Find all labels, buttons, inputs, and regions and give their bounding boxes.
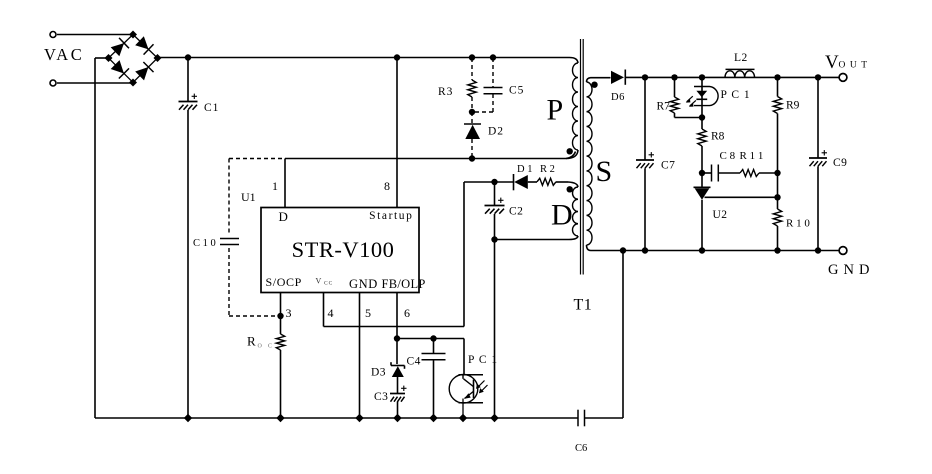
node sec-C7 (642, 74, 648, 80)
label R9 (786, 100, 800, 112)
svg-text:O: O (258, 344, 263, 350)
wire primary ground rail (95, 417, 623, 419)
svg-text:R 2: R 2 (540, 164, 555, 175)
label D (279, 209, 288, 224)
node R3-C5-D2 (469, 109, 475, 115)
wire C3 to gnd (397, 402, 399, 419)
svg-text:3: 3 (286, 306, 292, 320)
wire bridge-left to ground rail (95, 58, 109, 418)
diode D2 (464, 124, 481, 139)
svg-text:P C 1: P C 1 (721, 89, 751, 101)
wire pin1 drain (284, 159, 286, 208)
svg-text:8: 8 (384, 179, 390, 193)
svg-text:R 1 0: R 1 0 (786, 218, 810, 230)
label D6 (611, 92, 625, 103)
label C3 (374, 391, 388, 403)
wire sec to D6 (591, 77, 611, 79)
node sec-R9 (774, 74, 780, 80)
node opto-gnd (459, 414, 467, 422)
label STR-V100 (292, 237, 395, 262)
svg-text:D2: D2 (488, 126, 504, 138)
svg-text:D3: D3 (371, 367, 386, 379)
node bus-C5 (490, 54, 496, 60)
wire C2 to gnd (494, 240, 496, 419)
capacitor C4 (422, 339, 446, 419)
svg-text:C2: C2 (509, 206, 523, 218)
wire secondary-return vertical (622, 251, 624, 419)
wire pin3 (280, 293, 282, 335)
wire VAC-top to bridge (57, 34, 133, 36)
label Startup (369, 210, 413, 222)
label D2 (488, 126, 504, 138)
capacitor C8 (712, 165, 719, 182)
label pin5 (365, 306, 371, 320)
node ROCP-gnd (276, 414, 284, 422)
label C5 (509, 85, 524, 97)
node sec-C9 (815, 74, 821, 80)
wire C8 to R11 (718, 172, 740, 174)
resistor R3 (468, 80, 476, 97)
node pin3-dashed (277, 313, 283, 319)
wire dashed U1 top (229, 158, 283, 160)
label D1 (517, 164, 532, 175)
resistor ROCP (276, 334, 284, 350)
svg-text:S: S (596, 155, 613, 188)
node D-phase (567, 186, 573, 192)
svg-text:C6: C6 (575, 443, 587, 454)
diode D1 (514, 174, 528, 190)
svg-text:D: D (279, 209, 288, 224)
label U1 (241, 190, 256, 204)
svg-text:Startup: Startup (369, 210, 413, 222)
label ROCP (247, 334, 272, 350)
svg-text:5: 5 (365, 306, 371, 320)
label R3 (438, 86, 453, 98)
wire VAC-bottom to bridge (57, 82, 133, 84)
svg-text:GND: GND (349, 277, 378, 291)
label U2 (713, 209, 728, 221)
label S (596, 155, 613, 188)
wire dashed D2 bottom (471, 139, 473, 159)
svg-text:U2: U2 (713, 209, 728, 221)
wire R11 to divider (759, 172, 778, 174)
wire dashed U1 left (228, 159, 230, 317)
svg-text:D6: D6 (611, 92, 625, 103)
wire pin4 vcc (324, 182, 465, 327)
node R8-C8-U2 (699, 170, 705, 176)
wire vcc to D1 (464, 181, 514, 183)
node divider-ref (774, 194, 780, 200)
svg-text:C7: C7 (661, 160, 675, 172)
opto-transistor PC1 (449, 375, 487, 419)
node bus-R3 (469, 54, 475, 60)
node vcc-D1-C2 (491, 179, 497, 185)
label D-winding (551, 199, 573, 232)
label VAC (44, 45, 84, 64)
node sec-LED (699, 74, 705, 80)
op-amp U1 body (261, 208, 419, 293)
terminal VOUT (839, 74, 847, 82)
label C10 (193, 238, 216, 249)
label VOUT (825, 52, 872, 73)
svg-text:D: D (551, 199, 573, 232)
shunt-regulator U2 (694, 173, 711, 251)
wire dashed C5 top (492, 58, 494, 87)
node C4-gnd (429, 414, 437, 422)
label C4 (407, 356, 421, 368)
capacitor C5 (484, 88, 503, 94)
label C2 (509, 206, 523, 218)
node bus-C1 (185, 54, 191, 60)
node secgnd-R10 (774, 247, 780, 253)
opto-LED PC1 (686, 77, 718, 117)
capacitor C6 (578, 410, 585, 427)
node pin5-gnd (355, 414, 363, 422)
svg-text:V: V (316, 277, 322, 286)
node C1-gnd (184, 414, 192, 422)
svg-text:C 8: C 8 (720, 150, 736, 162)
wire pin6 (396, 293, 398, 365)
wire sec gnd rail (591, 250, 840, 252)
svg-text:C3: C3 (374, 391, 388, 403)
label GND-out (828, 262, 874, 278)
node bus-pin8 (394, 54, 400, 60)
wire aux return (495, 236, 579, 240)
label pin1 (272, 179, 278, 193)
svg-text:4: 4 (328, 306, 334, 320)
wire fb to opto (397, 339, 464, 375)
terminal VAC-top (50, 32, 56, 38)
label R10 (786, 218, 810, 230)
svg-text:P: P (547, 94, 564, 127)
label FB/OLP (382, 277, 426, 291)
label pin4 (328, 306, 334, 320)
wire primary return (285, 152, 576, 159)
label S/OCP (266, 275, 302, 289)
winding S secondary (587, 78, 593, 251)
winding P primary (566, 58, 578, 159)
node secgnd-U2 (699, 247, 705, 253)
node R7-LED-R8 (699, 114, 705, 120)
wire pin5 gnd (359, 293, 361, 419)
resistor R8 (698, 118, 706, 174)
capacitor C2 (485, 182, 505, 240)
wire dashed U1 bottom (229, 315, 278, 317)
capacitor C1 (179, 58, 198, 419)
wire dashed D2 top (471, 112, 473, 124)
label R11 (740, 150, 764, 162)
svg-text:C9: C9 (833, 157, 847, 169)
svg-text:OUT: OUT (839, 61, 872, 71)
resistor R11 (740, 170, 759, 177)
node divider-C8 (774, 170, 780, 176)
node D2-primary-return (469, 155, 475, 161)
wire R2 to aux (556, 182, 578, 187)
svg-text:1: 1 (272, 179, 278, 193)
label R2 (540, 164, 555, 175)
svg-text:S/OCP: S/OCP (266, 275, 302, 289)
node fb-C4 (430, 335, 436, 341)
wire dashed R3 top (471, 58, 473, 80)
svg-text:R: R (247, 334, 256, 349)
svg-text:R9: R9 (786, 100, 800, 112)
label C6 (575, 443, 587, 454)
label T1 (574, 297, 593, 314)
svg-text:D 1: D 1 (517, 164, 532, 175)
svg-text:R3: R3 (438, 86, 453, 98)
terminal GND (839, 247, 847, 255)
wire D1 to R2 (528, 181, 537, 183)
svg-text:R 1 1: R 1 1 (740, 150, 764, 162)
capacitor C10 (220, 239, 239, 245)
capacitor C3 (390, 386, 407, 402)
svg-text:FB/OLP: FB/OLP (382, 277, 426, 291)
wire D3 to C3 (397, 377, 399, 394)
resistor R9 (773, 77, 781, 197)
bridge rectifier (105, 31, 162, 87)
label C1 (204, 102, 219, 114)
wire D6 to Vout (625, 76, 839, 78)
svg-text:R8: R8 (711, 131, 725, 143)
svg-text:L2: L2 (734, 52, 748, 64)
node P-phase (567, 148, 573, 154)
wire pin8 startup (396, 58, 398, 208)
inductor L2 (725, 69, 755, 77)
label C8 (720, 150, 736, 162)
wire ROCP to gnd (280, 350, 282, 418)
svg-text:C5: C5 (509, 85, 524, 97)
diode D3 (391, 362, 405, 377)
svg-text:STR-V100: STR-V100 (292, 237, 395, 262)
node secgnd-return (620, 247, 626, 253)
transformer core (581, 39, 584, 275)
svg-text:R7: R7 (657, 101, 671, 113)
diode D6 (611, 70, 625, 85)
node secgnd-C7 (642, 247, 648, 253)
svg-text:V: V (825, 52, 839, 73)
label PC1 primary (468, 354, 498, 366)
node C3-gnd (393, 414, 401, 422)
svg-text:VAC: VAC (44, 45, 84, 64)
wire dashed C5 bottom (472, 94, 493, 112)
node S-phase (591, 82, 597, 88)
node C2-gnd (490, 414, 498, 422)
wire DC bus top (157, 57, 570, 60)
label R7 (657, 101, 671, 113)
svg-text:C 1 0: C 1 0 (193, 238, 216, 249)
label Vcc (316, 277, 334, 287)
capacitor C7 (636, 77, 654, 250)
capacitor C9 (809, 77, 827, 250)
svg-text:CC: CC (324, 281, 333, 287)
svg-text:6: 6 (404, 306, 410, 320)
wire dashed R3 bottom (471, 97, 473, 112)
label R8 (711, 131, 725, 143)
resistor R2 (537, 178, 556, 185)
node pin6-fb (394, 335, 400, 341)
winding D aux (573, 187, 579, 236)
label GND (349, 277, 378, 291)
label pin8 (384, 179, 390, 193)
node secgnd-C9 (815, 247, 821, 253)
svg-text:GND: GND (828, 262, 874, 278)
node sec-R7 (671, 74, 677, 80)
wire U2 ref (705, 196, 778, 198)
resistor R10 (773, 197, 781, 250)
svg-text:U1: U1 (241, 190, 256, 204)
node C2-aux-return (491, 236, 497, 242)
label pin6 (404, 306, 410, 320)
label pin3 (286, 306, 292, 320)
label L2 (734, 52, 748, 64)
label D3 (371, 367, 386, 379)
svg-text:C: C (268, 344, 272, 350)
svg-text:C1: C1 (204, 102, 219, 114)
resistor R7 (670, 77, 702, 117)
label C9 (833, 157, 847, 169)
label PC1 secondary (721, 89, 751, 101)
terminal VAC-bottom (50, 80, 56, 86)
label P (547, 94, 564, 127)
svg-text:T1: T1 (574, 297, 593, 314)
svg-text:C4: C4 (407, 356, 421, 368)
label C7 (661, 160, 675, 172)
svg-text:P C 1: P C 1 (468, 354, 498, 366)
wire to C8 (702, 172, 712, 174)
